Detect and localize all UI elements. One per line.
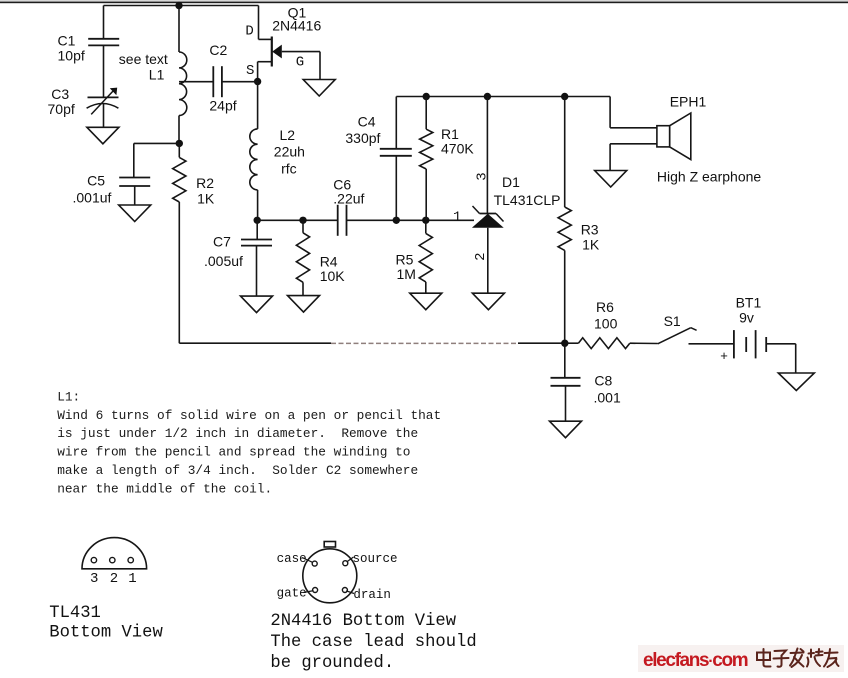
node junction source/C2/L2	[254, 78, 261, 85]
wire gate to ground	[319, 52, 321, 80]
ground Q1 gate	[303, 80, 335, 97]
wire top rail corner down to earphone	[609, 97, 611, 128]
wire C3 to ground	[103, 104, 105, 127]
speaker EPH1 symbol	[657, 126, 670, 147]
svg-text:100: 100	[594, 315, 618, 331]
wire C7 top lead	[256, 220, 258, 239]
svg-text:R4: R4	[320, 254, 338, 270]
resistor R4	[296, 233, 309, 282]
svg-text:D1: D1	[502, 174, 520, 190]
svg-text:24pf: 24pf	[209, 98, 236, 114]
svg-text:D: D	[245, 24, 253, 40]
svg-text:470K: 470K	[441, 140, 474, 156]
wire down to battery ground	[795, 344, 797, 373]
svg-text:see text: see text	[119, 51, 168, 67]
wire R6 to S1	[630, 342, 658, 344]
svg-text:near the middle of the coil.: near the middle of the coil.	[57, 481, 272, 496]
svg-text:gate: gate	[277, 587, 307, 601]
svg-text:is just under 1/2 inch in diam: is just under 1/2 inch in diameter. Remo…	[57, 426, 418, 441]
resistor R6	[578, 338, 629, 349]
capacitor C1	[88, 38, 119, 40]
wire Q1 drain vertical	[258, 6, 260, 40]
svg-text:22uh: 22uh	[274, 143, 305, 159]
svg-text:70pf: 70pf	[48, 101, 75, 117]
wire BT1 to ground corner	[766, 343, 796, 345]
resistor R1	[420, 129, 433, 169]
svg-text:High Z earphone: High Z earphone	[657, 169, 762, 185]
battery BT1	[733, 330, 735, 358]
diode D1 TL431 symbol	[480, 213, 497, 215]
svg-text:2N4416 Bottom View: 2N4416 Bottom View	[270, 612, 456, 631]
svg-text:rfc: rfc	[281, 160, 297, 176]
wire D1 cathode lead	[486, 97, 488, 214]
wire earphone top terminal	[610, 127, 657, 129]
wire mid rail right segment	[347, 219, 475, 221]
svg-text:10pf: 10pf	[58, 48, 85, 64]
ground C3	[87, 127, 119, 144]
wire R1 top lead	[425, 97, 427, 130]
svg-text:elecfans·com: elecfans·com	[643, 650, 748, 671]
svg-text:R3: R3	[581, 222, 599, 238]
wire Q1 source down	[257, 62, 259, 82]
wire R5 top lead	[425, 220, 427, 233]
capacitor C8	[551, 377, 581, 379]
svg-text:2: 2	[473, 252, 489, 260]
svg-text:case: case	[277, 552, 307, 566]
svg-text:.005uf: .005uf	[204, 253, 243, 269]
svg-text:be grounded.: be grounded.	[270, 654, 394, 673]
svg-text:BT1: BT1	[736, 294, 762, 310]
svg-text:L2: L2	[280, 127, 296, 143]
wire L1 tap to C2	[179, 81, 213, 83]
svg-text:L1: L1	[149, 66, 165, 82]
wire R5 bottom lead	[425, 282, 427, 293]
svg-text:C7: C7	[213, 233, 231, 249]
capacitor C2	[212, 66, 214, 97]
svg-text:.22uf: .22uf	[333, 191, 364, 207]
wire R1 bottom lead	[425, 169, 427, 220]
wire bottom rail faded segment	[331, 342, 518, 344]
wire C5 top lead	[133, 143, 135, 177]
svg-text:1K: 1K	[197, 191, 215, 207]
svg-text:G: G	[296, 54, 304, 70]
ground R5	[410, 293, 442, 310]
wire R3 bottom lead	[564, 250, 566, 343]
wire S1 to BT1	[689, 343, 734, 345]
ground C7	[241, 296, 273, 313]
svg-text:9v: 9v	[739, 310, 754, 326]
wire top rail	[396, 96, 610, 98]
ground C8	[550, 421, 582, 438]
svg-text:The case lead should: The case lead should	[270, 633, 476, 652]
wire bottom rail left solid	[179, 342, 331, 344]
ground R4	[288, 296, 320, 313]
wire C4 bottom lead	[395, 156, 397, 221]
TL431 package bottom view	[82, 538, 147, 569]
svg-text:2: 2	[110, 571, 118, 587]
svg-text:2N4416: 2N4416	[272, 18, 321, 34]
svg-text:make a length of 3/4 inch. So: make a length of 3/4 inch. Solder C2 som…	[57, 463, 418, 478]
capacitor C4	[380, 148, 412, 150]
inductor L1	[179, 52, 187, 116]
wire R4 bottom lead	[302, 282, 304, 295]
node junction L2/C7 on mid rail	[254, 217, 261, 224]
svg-text:3: 3	[90, 571, 98, 587]
wire earphone to ground	[609, 144, 611, 171]
svg-text:1: 1	[453, 210, 461, 226]
svg-text:L1:: L1:	[57, 389, 80, 404]
svg-text:+: +	[720, 348, 728, 363]
wire earphone bottom terminal	[610, 143, 657, 145]
capacitor C7	[241, 239, 272, 241]
capacitor C3 (variable)	[88, 96, 119, 98]
node junction C4 bottom	[393, 217, 400, 224]
svg-text:wire from the pencil and sprea: wire from the pencil and spread the wind…	[57, 445, 410, 460]
resistor R2	[173, 157, 186, 202]
wire C2 to source node	[222, 81, 258, 83]
ground BT1	[778, 373, 814, 391]
node junction L1 bottom / R2 / C5	[176, 140, 183, 147]
svg-text:C1: C1	[58, 33, 76, 49]
node junction R4	[299, 217, 306, 224]
wire mid rail left segment	[257, 219, 338, 221]
svg-text:Wind 6 turns of solid wire on: Wind 6 turns of solid wire on a pen or p…	[57, 408, 441, 423]
node junction R3 top	[561, 93, 568, 100]
svg-text:Bottom View: Bottom View	[49, 624, 163, 643]
logo chinese characters 电子发烧友	[757, 649, 839, 668]
wire Q1 drain stub	[259, 38, 272, 40]
svg-text:drain: drain	[353, 588, 391, 602]
svg-text:S: S	[246, 63, 254, 79]
svg-text:C8: C8	[594, 373, 612, 389]
svg-text:R2: R2	[196, 175, 214, 191]
wire junction to C5	[134, 142, 180, 144]
node junction bottom rail / R3 / C8 / R6	[561, 340, 568, 347]
wire L1 bottom lead	[178, 116, 180, 144]
node junction L1 top	[175, 2, 182, 9]
svg-text:.001uf: .001uf	[73, 190, 112, 206]
resistor R3	[558, 207, 571, 250]
wire source node to L2	[257, 82, 259, 129]
svg-text:source: source	[353, 552, 398, 566]
resistor R5	[419, 233, 432, 282]
wire C5 to ground	[134, 186, 136, 205]
wire L1 top lead	[178, 6, 180, 53]
svg-text:1: 1	[128, 571, 136, 587]
ground C5	[119, 205, 151, 222]
svg-text:S1: S1	[664, 313, 681, 329]
svg-text:.001: .001	[594, 389, 621, 405]
svg-text:330pf: 330pf	[345, 130, 380, 146]
wire C4 top lead	[395, 97, 397, 149]
ground D1	[472, 293, 504, 310]
capacitor C6	[337, 205, 339, 236]
svg-text:R6: R6	[596, 299, 614, 315]
wire R4 top lead	[302, 220, 304, 233]
svg-text:C2: C2	[209, 42, 227, 58]
svg-text:3: 3	[474, 172, 490, 180]
wire C1 top lead	[103, 6, 105, 39]
wire R2 bottom down to bottom rail	[178, 202, 180, 343]
svg-text:1K: 1K	[582, 237, 600, 253]
TL431 pin circles	[91, 557, 96, 562]
wire top net: C1 top to Q1 drain	[104, 5, 259, 7]
inductor L2	[250, 129, 258, 190]
node junction R1/R5	[422, 217, 429, 224]
wire Q1 source stub	[258, 61, 271, 63]
2N4416 pin circles	[312, 561, 317, 566]
svg-text:TL431CLP: TL431CLP	[494, 192, 561, 208]
wire bottom rail right solid	[518, 342, 565, 344]
wire Q1 gate lead	[282, 51, 320, 53]
svg-text:1M: 1M	[397, 266, 416, 282]
pin pointer lines	[302, 558, 313, 563]
svg-text:EPH1: EPH1	[670, 93, 707, 109]
wire C8 to ground	[565, 386, 567, 421]
wire R3 top lead	[564, 97, 566, 208]
page top border	[0, 0, 848, 2]
switch S1	[658, 328, 691, 344]
wire D1 anode lead	[487, 228, 489, 293]
node junction D1 cathode top	[484, 93, 491, 100]
2N4416 package bottom view	[303, 549, 357, 603]
wire junction to R2	[178, 143, 180, 157]
capacitor C5	[119, 177, 150, 179]
elecfans.com logo halo	[638, 645, 844, 672]
wire L2 bottom lead	[257, 190, 259, 220]
node junction R1 top	[423, 93, 430, 100]
svg-text:10K: 10K	[320, 268, 346, 284]
svg-text:TL431: TL431	[49, 604, 101, 623]
wire to R6	[565, 342, 579, 344]
transistor Q1 channel bar	[271, 37, 273, 67]
svg-text:C5: C5	[87, 172, 105, 188]
ground EPH1	[595, 171, 627, 188]
svg-text:C4: C4	[358, 113, 376, 129]
svg-text:C3: C3	[51, 86, 69, 102]
transistor Q1 gate arrow	[272, 45, 282, 59]
wire C1 to C3	[103, 45, 105, 97]
wire C7 to ground	[256, 246, 258, 297]
wire C8 top lead	[564, 343, 566, 378]
